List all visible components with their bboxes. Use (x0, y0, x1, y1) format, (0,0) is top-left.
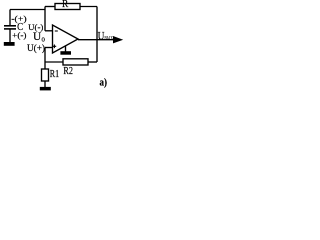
capacitor C top plate (4, 25, 16, 27)
svg-text:R2: R2 (63, 65, 73, 77)
op-amp plus input sign (53, 45, 57, 49)
op-amp minus input sign (55, 30, 58, 32)
ground of source C (4, 42, 15, 46)
wire inverting node vertical (44, 7, 46, 31)
wire R2 branch left (45, 61, 63, 63)
op-amp U1 triangle (53, 25, 79, 53)
svg-text:R1: R1 (50, 68, 59, 80)
wire source bottom lead (9, 29, 11, 42)
svg-text:R: R (62, 0, 69, 10)
wire feedback branch right (80, 6, 97, 8)
wire non-inverting node vertical (44, 48, 46, 70)
wire R2 branch right (88, 61, 97, 63)
ground of R1 (40, 87, 51, 91)
output arrow head (113, 36, 123, 43)
ground of op-amp (60, 51, 71, 55)
wire feedback branch left (45, 6, 55, 8)
svg-text:+(-): +(-) (12, 30, 26, 40)
svg-text:U(+): U(+) (27, 43, 45, 53)
wire right vertical from R to R2 (96, 7, 98, 63)
wire source top lead (9, 10, 11, 26)
wire op-amp to ground (65, 46, 67, 52)
resistor R2 body (63, 59, 88, 65)
wire to non-inverting input (45, 47, 53, 49)
capacitor C bottom plate (4, 28, 16, 30)
wire output (78, 39, 114, 41)
wire R1 to ground (44, 81, 46, 88)
svg-text:a): a) (100, 76, 108, 88)
resistor R1 body (42, 69, 49, 81)
resistor R body (55, 4, 80, 10)
wire to inverting input (45, 30, 53, 32)
wire from source top plate to inverting node (10, 9, 45, 11)
